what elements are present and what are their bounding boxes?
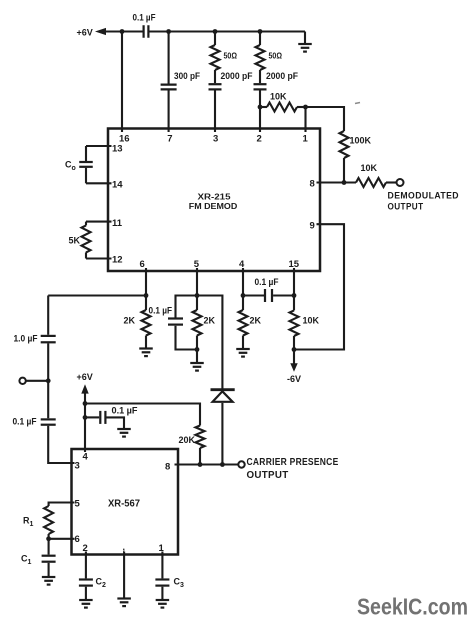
svg-text:XR-567: XR-567 xyxy=(108,499,140,510)
svg-text:8: 8 xyxy=(165,461,170,472)
svg-text:0.1 µF: 0.1 µF xyxy=(13,417,37,427)
svg-text:6: 6 xyxy=(140,259,145,270)
svg-text:4: 4 xyxy=(83,452,89,463)
svg-text:300 pF: 300 pF xyxy=(174,71,200,81)
svg-text:1.0 µF: 1.0 µF xyxy=(14,334,38,344)
svg-text:SeekIC.com: SeekIC.com xyxy=(357,593,468,619)
svg-text:CARRIER PRESENCE: CARRIER PRESENCE xyxy=(247,457,339,468)
svg-text:11: 11 xyxy=(112,218,123,229)
svg-text:50Ω: 50Ω xyxy=(224,50,238,60)
svg-text:OUTPUT: OUTPUT xyxy=(388,202,424,212)
svg-text:5: 5 xyxy=(75,498,81,509)
svg-text:12: 12 xyxy=(112,254,123,265)
svg-text:5K: 5K xyxy=(69,235,81,245)
svg-text:8: 8 xyxy=(310,179,315,190)
svg-text:-6V: -6V xyxy=(287,374,301,384)
svg-text:FM DEMOD: FM DEMOD xyxy=(189,201,238,211)
svg-text:2K: 2K xyxy=(250,316,262,326)
svg-text:2000 pF: 2000 pF xyxy=(221,71,253,81)
svg-text:XR-215: XR-215 xyxy=(198,192,231,202)
svg-text:20K: 20K xyxy=(179,435,196,445)
svg-text:,: , xyxy=(123,542,126,552)
svg-text:0.1 µF: 0.1 µF xyxy=(149,306,173,316)
svg-text:10K: 10K xyxy=(270,92,287,102)
svg-text:10K: 10K xyxy=(361,163,378,173)
svg-text:2000 pF: 2000 pF xyxy=(266,71,298,81)
svg-text:100K: 100K xyxy=(350,136,372,146)
svg-text:6: 6 xyxy=(75,534,80,545)
svg-text:2: 2 xyxy=(257,134,262,145)
svg-text:1: 1 xyxy=(303,134,309,145)
svg-text:+6V: +6V xyxy=(77,372,93,382)
svg-text:OUTPUT: OUTPUT xyxy=(247,470,289,481)
svg-text:3: 3 xyxy=(213,134,218,145)
svg-text:9: 9 xyxy=(310,220,315,231)
svg-text:2K: 2K xyxy=(204,316,216,326)
svg-text:14: 14 xyxy=(112,179,123,190)
svg-text:0.1 µF: 0.1 µF xyxy=(255,277,279,287)
svg-text:0.1 µF: 0.1 µF xyxy=(112,406,138,416)
svg-text:13: 13 xyxy=(112,144,123,155)
svg-text:+6V: +6V xyxy=(77,27,93,37)
svg-text:2K: 2K xyxy=(124,316,136,326)
svg-text:3: 3 xyxy=(75,461,80,472)
svg-text:DEMODULATED: DEMODULATED xyxy=(388,191,460,201)
svg-text:7: 7 xyxy=(167,134,172,145)
svg-text:0.1 µF: 0.1 µF xyxy=(133,13,156,23)
svg-text:50Ω: 50Ω xyxy=(269,50,283,60)
svg-text:10K: 10K xyxy=(303,316,320,326)
